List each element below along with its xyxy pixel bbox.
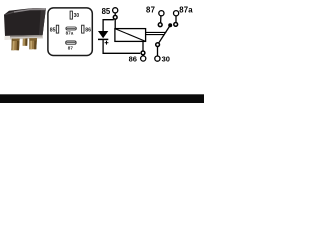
wire coil to junction 86 — [142, 41, 144, 51]
switch blade — [159, 25, 170, 43]
wire contact87 to terminal87 — [160, 16, 162, 23]
wire terminal85 to junction — [114, 13, 116, 15]
svg-text:87: 87 — [68, 46, 74, 51]
diode D1 — [98, 31, 108, 39]
svg-text:30: 30 — [74, 13, 80, 19]
terminal 86 circle — [141, 56, 146, 61]
relay base plate — [4, 35, 43, 40]
relay coil K1 — [115, 29, 146, 42]
bottom black bar — [0, 94, 204, 103]
pinout pin 86 blade — [82, 25, 84, 33]
pinout pin 30 blade — [70, 11, 72, 19]
contact 87a circle — [174, 23, 178, 27]
contact 87 circle — [158, 23, 162, 27]
pinout pin 87 blade — [66, 41, 76, 44]
svg-text:86: 86 — [129, 55, 137, 64]
terminal 87 circle — [159, 11, 164, 16]
switch blade tip dot — [168, 23, 172, 27]
relay pin 1 — [11, 39, 19, 51]
armature link double line — [146, 32, 167, 34]
relay pin 3 — [29, 38, 37, 49]
terminal 85 circle — [113, 8, 118, 13]
pinout pin 87a blade — [66, 27, 76, 30]
svg-text:87a: 87a — [66, 31, 74, 36]
pinout pin 85 blade — [56, 25, 58, 33]
svg-text:87a: 87a — [179, 5, 193, 14]
wire diode to 86 — [103, 39, 140, 53]
wire junction86 to terminal — [142, 55, 144, 56]
wire junction85 to coil — [114, 19, 116, 28]
svg-text:85: 85 — [102, 7, 111, 16]
pinout box outline — [48, 8, 92, 56]
wire pivot to terminal30 — [157, 47, 159, 56]
wire contact87a to terminal87a — [175, 16, 177, 23]
svg-text:85: 85 — [50, 28, 56, 34]
relay photo body — [4, 8, 46, 36]
svg-text:30: 30 — [162, 55, 170, 64]
svg-text:87: 87 — [146, 5, 155, 14]
svg-text:86: 86 — [85, 28, 91, 34]
node junction 86 — [141, 51, 145, 55]
terminal 30 circle — [155, 56, 160, 61]
diode polarity plus sign — [105, 41, 109, 45]
node junction 85 — [113, 15, 117, 19]
relay pin 2 — [23, 38, 28, 45]
switch pivot circle — [156, 43, 160, 47]
wire junction85 to diode — [103, 20, 114, 31]
relay photo top highlight — [5, 8, 46, 15]
terminal 87a circle — [174, 11, 179, 16]
